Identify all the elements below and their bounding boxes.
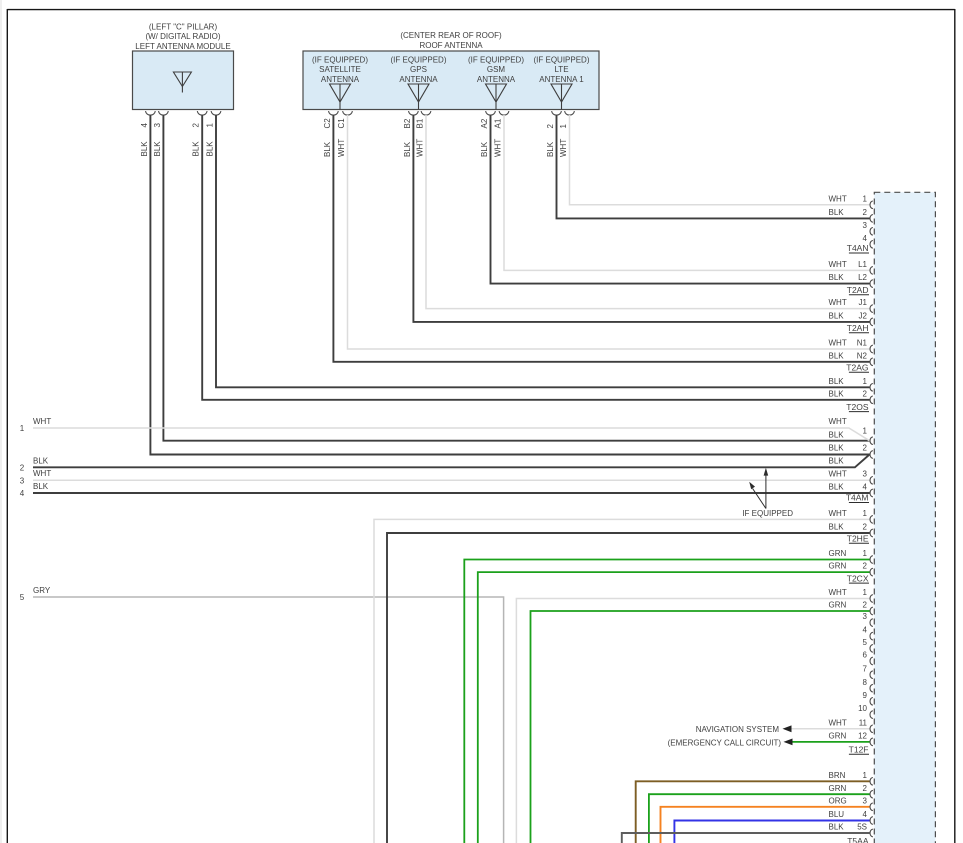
svg-text:3: 3 bbox=[20, 476, 25, 485]
svg-text:WHT: WHT bbox=[829, 298, 847, 307]
wire WHT satellite antenna C1 to T2AG N1 bbox=[348, 115, 870, 349]
connector T2OS pin labels bbox=[829, 377, 873, 412]
svg-text:5S: 5S bbox=[857, 823, 867, 832]
svg-text:BLK: BLK bbox=[829, 208, 845, 217]
svg-text:BLK: BLK bbox=[829, 444, 845, 453]
svg-text:N2: N2 bbox=[857, 351, 868, 360]
svg-text:ANTENNA: ANTENNA bbox=[321, 75, 360, 84]
svg-text:3: 3 bbox=[863, 612, 868, 621]
svg-text:WHT: WHT bbox=[559, 139, 568, 157]
svg-text:2: 2 bbox=[863, 208, 868, 217]
svg-text:L2: L2 bbox=[858, 273, 867, 282]
svg-text:WHT: WHT bbox=[829, 260, 847, 269]
left antenna module (box) bbox=[133, 22, 234, 109]
svg-text:T12F: T12F bbox=[849, 745, 869, 755]
svg-text:10: 10 bbox=[858, 704, 867, 713]
svg-text:GRN: GRN bbox=[829, 601, 847, 610]
svg-text:T4AN: T4AN bbox=[847, 243, 869, 253]
svg-text:IF EQUIPPED: IF EQUIPPED bbox=[742, 509, 793, 518]
svg-text:1: 1 bbox=[863, 509, 868, 518]
svg-text:N1: N1 bbox=[857, 339, 868, 348]
svg-text:GRN: GRN bbox=[829, 549, 847, 558]
svg-text:(IF EQUIPPED): (IF EQUIPPED) bbox=[390, 55, 446, 64]
svg-text:BLK: BLK bbox=[829, 351, 845, 360]
svg-text:T2AD: T2AD bbox=[847, 285, 869, 295]
svg-text:WHT: WHT bbox=[829, 509, 847, 518]
svg-text:11: 11 bbox=[859, 718, 868, 727]
svg-text:WHT: WHT bbox=[493, 139, 502, 157]
connector T2HE pin labels bbox=[829, 509, 873, 543]
svg-text:BLK: BLK bbox=[829, 457, 845, 466]
left antenna module pins 4,3,2,1 bbox=[140, 111, 221, 156]
wire 4 BLK (left edge) to T4AM pin 4 bbox=[20, 482, 870, 498]
svg-text:BLK: BLK bbox=[829, 273, 845, 282]
svg-text:1: 1 bbox=[863, 588, 868, 597]
svg-text:4: 4 bbox=[863, 482, 868, 491]
svg-text:B2: B2 bbox=[403, 118, 412, 128]
wire BLU T5AA pin 4 down at x=674.4 bbox=[674, 821, 869, 843]
wire WHT T12F pin 11 (to navigation system) bbox=[696, 725, 870, 734]
pins A2,A1 (gsm antenna) bbox=[480, 111, 509, 157]
svg-text:4: 4 bbox=[20, 489, 25, 498]
svg-text:1: 1 bbox=[863, 771, 868, 780]
connector T12F pin labels bbox=[829, 588, 873, 754]
IF EQUIPPED callout arrows bbox=[742, 468, 793, 518]
svg-text:BLK: BLK bbox=[546, 141, 555, 157]
wire BLK left module pin 3 to T4AM pin 1 bbox=[163, 115, 869, 441]
svg-text:2: 2 bbox=[546, 124, 555, 129]
connector box (dashed, right side) bbox=[874, 192, 935, 843]
svg-text:ROOF ANTENNA: ROOF ANTENNA bbox=[419, 41, 483, 50]
svg-text:4: 4 bbox=[863, 234, 868, 243]
svg-text:NAVIGATION SYSTEM: NAVIGATION SYSTEM bbox=[696, 725, 780, 734]
svg-text:2: 2 bbox=[863, 389, 868, 398]
gsm antenna bbox=[468, 55, 524, 109]
svg-text:BLK: BLK bbox=[192, 141, 201, 157]
svg-text:T2CX: T2CX bbox=[847, 573, 869, 583]
wire BLK gps antenna B2 to T2AH J2 bbox=[413, 115, 869, 322]
svg-text:BLK: BLK bbox=[829, 430, 845, 439]
svg-text:3: 3 bbox=[863, 221, 868, 230]
svg-text:2: 2 bbox=[863, 562, 868, 571]
svg-text:T2AG: T2AG bbox=[846, 363, 868, 373]
gps antenna bbox=[390, 55, 446, 109]
svg-text:GRN: GRN bbox=[829, 784, 847, 793]
svg-text:SATELLITE: SATELLITE bbox=[319, 65, 361, 74]
svg-text:L1: L1 bbox=[858, 260, 867, 269]
roof antenna (box) bbox=[303, 31, 599, 110]
svg-text:(LEFT "C" PILLAR): (LEFT "C" PILLAR) bbox=[149, 22, 218, 31]
svg-text:ORG: ORG bbox=[829, 796, 847, 805]
wire BLK left module pin 4 to T4AM pin 2 bbox=[150, 115, 869, 455]
svg-text:A1: A1 bbox=[493, 118, 502, 128]
svg-text:T5AA: T5AA bbox=[847, 836, 869, 843]
svg-text:1: 1 bbox=[863, 377, 868, 386]
wire GRN T2CX pin 1 down at x=464.3 bbox=[464, 560, 869, 843]
svg-text:B1: B1 bbox=[415, 118, 424, 128]
svg-text:7: 7 bbox=[863, 664, 868, 673]
svg-text:ANTENNA 1: ANTENNA 1 bbox=[539, 75, 584, 84]
svg-text:1: 1 bbox=[205, 123, 214, 128]
wire BLK left module pin 1 to T2OS pin 1 bbox=[216, 115, 870, 387]
svg-text:J2: J2 bbox=[859, 312, 868, 321]
svg-text:BLK: BLK bbox=[829, 389, 845, 398]
connector T2CX pin labels bbox=[829, 549, 873, 583]
svg-text:WHT: WHT bbox=[337, 139, 346, 157]
svg-text:WHT: WHT bbox=[829, 417, 847, 426]
wire GRN T12F pin 12 (emergency call circuit) bbox=[668, 738, 870, 747]
svg-text:WHT: WHT bbox=[415, 139, 424, 157]
svg-text:6: 6 bbox=[863, 651, 868, 660]
wire WHT gsm antenna A1 to T2AD L1 bbox=[504, 115, 870, 270]
svg-text:1: 1 bbox=[863, 426, 868, 435]
connector T4AM pin labels bbox=[829, 417, 873, 503]
svg-text:LEFT ANTENNA MODULE: LEFT ANTENNA MODULE bbox=[135, 42, 230, 51]
svg-text:5: 5 bbox=[20, 593, 25, 602]
svg-text:BLK: BLK bbox=[480, 141, 489, 157]
svg-text:T4AM: T4AM bbox=[846, 493, 869, 503]
svg-text:2: 2 bbox=[192, 123, 201, 128]
wire BRN T5AA pin 1 down at x=635.7 bbox=[636, 781, 870, 843]
svg-text:WHT: WHT bbox=[829, 194, 847, 203]
svg-text:BLK: BLK bbox=[33, 456, 49, 465]
svg-text:ANTENNA: ANTENNA bbox=[399, 75, 438, 84]
connector T4AN pin labels bbox=[829, 194, 873, 253]
svg-text:BLK: BLK bbox=[829, 482, 845, 491]
wire WHT T2HE pin 1 down at x=374 bbox=[374, 519, 870, 843]
wire 5 GRY (left edge) down at x=503.6 bbox=[20, 586, 504, 843]
svg-text:BRN: BRN bbox=[829, 771, 846, 780]
wire 3 WHT (left edge) to T4AM pin 3 bbox=[20, 469, 870, 485]
svg-text:3: 3 bbox=[863, 469, 868, 478]
lte antenna 1 bbox=[533, 55, 589, 109]
connector T5AA pin labels bbox=[829, 771, 873, 843]
wire BLK T2HE pin 2 down at x=387 bbox=[387, 533, 870, 843]
svg-text:9: 9 bbox=[863, 691, 868, 700]
wire BLK left module pin 2 to T2OS pin 2 bbox=[202, 115, 869, 400]
svg-text:1: 1 bbox=[863, 194, 868, 203]
svg-text:WHT: WHT bbox=[829, 718, 847, 727]
wire WHT gps antenna B1 to T2AH J1 bbox=[426, 115, 870, 309]
wire 2 BLK (left edge) to T4AM pin 2 bbox=[20, 455, 870, 473]
svg-text:BLK: BLK bbox=[829, 523, 845, 532]
svg-text:(IF EQUIPPED): (IF EQUIPPED) bbox=[533, 55, 589, 64]
svg-text:A2: A2 bbox=[480, 118, 489, 128]
svg-text:GRN: GRN bbox=[829, 732, 847, 741]
svg-text:2: 2 bbox=[863, 444, 868, 453]
svg-text:(IF EQUIPPED): (IF EQUIPPED) bbox=[312, 55, 368, 64]
svg-text:BLK: BLK bbox=[829, 377, 845, 386]
wire GRN T5AA pin 2 down at x=648.9 bbox=[649, 794, 870, 843]
svg-text:4: 4 bbox=[863, 626, 868, 635]
svg-text:2: 2 bbox=[863, 601, 868, 610]
svg-text:2: 2 bbox=[863, 523, 868, 532]
svg-text:J1: J1 bbox=[859, 298, 868, 307]
wire ORG T5AA pin 3 down at x=660.5 bbox=[661, 807, 870, 843]
svg-text:4: 4 bbox=[863, 810, 868, 819]
svg-text:T2AH: T2AH bbox=[847, 323, 869, 333]
svg-text:1: 1 bbox=[20, 424, 25, 433]
svg-text:BLU: BLU bbox=[829, 810, 845, 819]
satellite antenna bbox=[312, 55, 368, 109]
svg-text:(W/ DIGITAL RADIO): (W/ DIGITAL RADIO) bbox=[145, 32, 220, 41]
pins C2,C1 (satellite antenna) bbox=[323, 111, 353, 157]
svg-text:8: 8 bbox=[863, 678, 868, 687]
svg-text:(CENTER REAR OF ROOF): (CENTER REAR OF ROOF) bbox=[400, 31, 502, 40]
wire BLK T5AA pin 5S down at x=621.8 bbox=[622, 833, 870, 843]
wire BLK lte antenna pin 2 to T4AN pin 2 bbox=[557, 115, 870, 218]
wire GRN T2CX pin 2 down at x=477.8 bbox=[478, 572, 870, 843]
svg-text:5: 5 bbox=[863, 638, 868, 647]
wire 1 WHT (left edge) to T4AM pin 1 bbox=[20, 417, 870, 441]
svg-text:GPS: GPS bbox=[410, 65, 427, 74]
svg-text:WHT: WHT bbox=[829, 339, 847, 348]
svg-text:ANTENNA: ANTENNA bbox=[477, 75, 516, 84]
pins 2,1 (lte antenna 1) bbox=[546, 111, 575, 157]
svg-text:BLK: BLK bbox=[323, 141, 332, 157]
svg-text:(IF EQUIPPED): (IF EQUIPPED) bbox=[468, 55, 524, 64]
svg-text:BLK: BLK bbox=[140, 141, 149, 157]
connector T2AD pin labels bbox=[829, 260, 873, 295]
svg-text:BLK: BLK bbox=[205, 141, 214, 157]
wire BLK satellite antenna C2 to T2AG N2 bbox=[333, 115, 869, 362]
svg-text:BLK: BLK bbox=[829, 312, 845, 321]
svg-text:BLK: BLK bbox=[403, 141, 412, 157]
svg-text:GSM: GSM bbox=[487, 65, 506, 74]
svg-text:(EMERGENCY CALL CIRCUIT): (EMERGENCY CALL CIRCUIT) bbox=[668, 738, 782, 747]
svg-text:1: 1 bbox=[559, 124, 568, 129]
svg-text:WHT: WHT bbox=[33, 469, 51, 478]
svg-text:C1: C1 bbox=[337, 118, 346, 129]
svg-text:LTE: LTE bbox=[554, 65, 568, 74]
svg-text:GRN: GRN bbox=[829, 562, 847, 571]
svg-text:3: 3 bbox=[153, 123, 162, 128]
wire WHT lte antenna pin 1 to T4AN pin 1 bbox=[570, 115, 870, 205]
svg-text:BLK: BLK bbox=[829, 823, 845, 832]
svg-text:WHT: WHT bbox=[829, 469, 847, 478]
antenna symbol (left antenna module) bbox=[173, 72, 191, 93]
svg-text:T2OS: T2OS bbox=[846, 402, 869, 412]
wire GRN T12F pin 2 down at x=530.5 bbox=[531, 611, 870, 843]
wire BLK gsm antenna A2 to T2AD L2 bbox=[491, 115, 870, 284]
connector T2AH pin labels bbox=[829, 298, 873, 333]
svg-text:WHT: WHT bbox=[829, 588, 847, 597]
svg-text:2: 2 bbox=[20, 463, 25, 472]
svg-text:12: 12 bbox=[858, 732, 867, 741]
svg-text:3: 3 bbox=[863, 796, 868, 805]
svg-text:GRY: GRY bbox=[33, 586, 51, 595]
svg-text:C2: C2 bbox=[323, 118, 332, 129]
svg-text:T2HE: T2HE bbox=[847, 533, 869, 543]
svg-text:1: 1 bbox=[863, 549, 868, 558]
svg-text:WHT: WHT bbox=[33, 417, 51, 426]
svg-text:2: 2 bbox=[863, 784, 868, 793]
connector T2AG pin labels bbox=[829, 339, 873, 373]
svg-text:BLK: BLK bbox=[153, 141, 162, 157]
wire WHT T12F pin 1 down at x=516.4 bbox=[516, 599, 869, 843]
svg-text:4: 4 bbox=[140, 123, 149, 128]
svg-text:BLK: BLK bbox=[33, 482, 49, 491]
pins B2,B1 (gps antenna) bbox=[403, 111, 431, 157]
